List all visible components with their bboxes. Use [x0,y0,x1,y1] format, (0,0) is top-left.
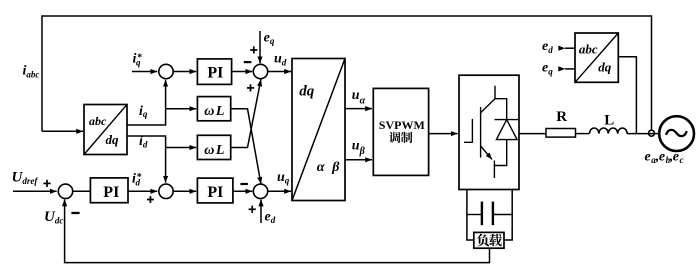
wire SVPWM to inverter [429,133,458,135]
block omega-L 2 [197,135,230,159]
transform block abc/dq (emf measurement) [575,33,618,82]
sign + (junction 4 bottom) [249,206,256,213]
wire junction 3 to PI d-axis [173,190,196,192]
wire L to AC source [627,133,659,135]
sign + (U_dref) [43,180,50,187]
wire tap up to abc/dq measurement block [618,57,636,134]
wire R to L [576,133,590,135]
summing junction 3 (i_d* vs i_d) [159,184,173,198]
svg-text:ωL: ωL [204,143,224,158]
wire i_abc top feedback (node tap, across top, down left into abc/dq) [42,16,652,131]
wire dc-link right leg [504,190,512,241]
wire u_d: junction 2 to dq/alpha-beta block [268,71,291,73]
block PI dc-voltage [90,178,128,203]
svg-text:L: L [604,113,614,129]
wire dc-link left leg [467,190,474,241]
capacitor C1 dc-link [467,202,512,226]
svg-text:PI: PI [207,65,223,82]
wire omega-L 1 cross-coupling into junction 4 top [231,109,261,184]
wire inverter output to resistor R [519,133,546,135]
wire e_q output arrow (points left) [558,66,575,71]
sign - (junction 2 input) [244,61,252,63]
sign - (junction 4 input) [240,183,248,185]
label i_d* [132,171,142,187]
wire i_d: abc/dq to summing junction 3, branch to omega-L 2 [127,136,196,183]
svg-text:PI: PI [103,184,119,201]
svg-text:d: d [136,177,141,187]
wire i_q* input into summing junction 1 [132,71,157,73]
wire e_q feedforward into junction 2 top [259,31,261,63]
wire u_beta: dq/alpha-beta to SVPWM [345,159,372,161]
svg-text:dq: dq [106,132,120,147]
wire e_d feedforward into junction 4 bottom [260,200,262,223]
wire u_q: junction 4 to dq/alpha-beta block [268,190,291,192]
sign + (junction 2 bottom) [247,84,254,91]
svg-text:dq: dq [299,84,315,100]
svg-text:dq: dq [598,60,612,75]
summing junction 1 (i_q* vs i_q) [159,64,173,78]
summing junction 5 (U_dref vs U_dc) [58,184,72,198]
summing junction 4 (u_q) [253,184,267,198]
transform block dq/alpha-beta [292,59,345,201]
resistor R [546,129,576,138]
wire junction 5 to PI dc-voltage [73,190,91,192]
label alpha-beta (big block) [317,160,341,175]
wire omega-L 2 cross-coupling into junction 2 bottom [231,80,261,148]
summing junction 2 (u_d) [253,64,267,78]
svg-text:abc: abc [579,41,598,56]
wire PI d-axis to summing junction 4 [233,190,252,192]
svg-text:R: R [556,109,567,125]
label i_q* [133,52,143,68]
label fu-zai (load) [477,234,502,247]
block SVPWM modulator [373,88,428,175]
wire e_d output arrow (points left) [558,46,575,51]
svg-text:β: β [331,160,340,175]
svg-text:abc: abc [89,114,107,128]
block PI q-axis [197,59,231,85]
svg-text:α: α [317,160,325,175]
svg-text:ωL: ωL [204,104,224,119]
sign - (U_dc) [71,212,79,214]
svg-text:PI: PI [207,184,223,201]
block omega-L 1 [197,97,230,121]
wire i_d*: PI dc-voltage to summing junction 3 [128,190,157,192]
inductor L coils [590,128,628,134]
wire u_alpha: dq/alpha-beta to SVPWM [345,108,372,110]
wire U_dc feedback (load bottom, bottom rail, up into junction 5) [65,200,490,263]
transform block abc/dq (current measurement) [84,105,127,155]
node A: open-circle tap on AC line [649,130,655,136]
label tiao-zhi (modulation) [389,132,412,143]
svg-text:ea,eb,ec: ea,eb,ec [645,150,684,166]
diode D1 antiparallel [494,99,518,166]
wire i_q: abc/dq to summing junction 1, branch to omega-L 1 [127,80,196,125]
transistor Q1 IGBT [464,86,495,178]
block PI d-axis [197,178,233,203]
inverter block U1 [459,75,519,189]
load box (fu-zai) [474,232,504,248]
sign + (e_q) [250,46,257,53]
wire junction 1 to PI q-axis [173,71,196,73]
wire U_dref input into summing junction 5 [13,190,57,192]
wire PI q-axis to summing junction 2 [232,71,253,73]
sign + (junction 3) [147,196,154,203]
AC source G1 (grid) [659,116,694,151]
svg-text:SVPWM: SVPWM [379,118,425,132]
svg-text:q: q [136,58,141,68]
